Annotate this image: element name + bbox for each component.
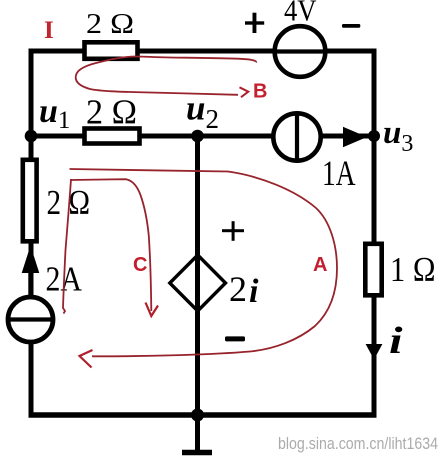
- svg-text:4V: 4V: [284, 0, 317, 28]
- plus sign 4V: [245, 13, 264, 33]
- plus sign diamond: [222, 221, 244, 241]
- wire top horizontal: [29, 49, 377, 54]
- loop A curve: [70, 169, 338, 356]
- voltage source 4V internal line: [275, 49, 325, 53]
- current source 1A internal bar: [295, 113, 299, 161]
- svg-text:2 Ω: 2 Ω: [86, 93, 137, 132]
- voltage source 4V circle: [275, 26, 326, 77]
- svg-text:A: A: [313, 254, 327, 276]
- minus sign 4V: [342, 24, 360, 28]
- arrow current i down on right wire: [366, 344, 383, 360]
- current source 2A internal bar: [8, 317, 53, 321]
- minus sign diamond: [225, 336, 245, 341]
- loop C curve: [71, 179, 151, 311]
- svg-text:I: I: [44, 17, 54, 44]
- arrowhead into node u3: [343, 127, 367, 147]
- svg-text:C: C: [133, 254, 147, 276]
- svg-text:1A: 1A: [322, 153, 356, 193]
- svg-text:2 Ω: 2 Ω: [86, 8, 134, 40]
- wire right vertical: [372, 49, 377, 418]
- resistor R-left 2 ohm: [23, 160, 37, 242]
- resistor R-right 1 ohm: [365, 244, 381, 295]
- arrow 2A up: [22, 246, 40, 274]
- node u1 dot: [25, 130, 38, 143]
- current source 1A circle: [273, 113, 320, 160]
- node u2 dot: [191, 130, 204, 143]
- loop C left branch: [63, 179, 71, 314]
- svg-text:B: B: [253, 81, 267, 103]
- wire middle vertical: [195, 136, 200, 417]
- wire second row horizontal: [29, 134, 375, 139]
- resistor R-top 2 ohm: [85, 42, 138, 59]
- dependent source diamond 2i: [170, 255, 226, 311]
- loop A arrowhead: [80, 350, 93, 368]
- node u3 dot: [368, 130, 380, 142]
- loop B arrowhead: [240, 87, 249, 97]
- svg-text:2: 2: [229, 269, 247, 309]
- node bottom dot: [191, 409, 204, 422]
- resistor R-mid 2 ohm: [85, 129, 140, 144]
- wire left vertical: [29, 49, 34, 418]
- svg-text:blog.sina.com.cn/liht1634: blog.sina.com.cn/liht1634: [278, 435, 438, 453]
- svg-text:i: i: [389, 320, 403, 362]
- ground: [195, 415, 200, 452]
- svg-text:i: i: [249, 273, 259, 310]
- svg-text:1 Ω: 1 Ω: [390, 250, 436, 289]
- loop C arrowhead: [146, 303, 159, 317]
- wire bottom horizontal: [29, 412, 377, 418]
- current source 2A circle: [8, 297, 53, 342]
- loop B curve: [76, 56, 257, 94]
